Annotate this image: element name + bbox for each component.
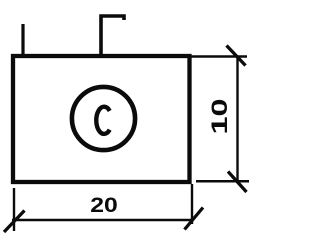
extension line below right corner [191, 184, 193, 224]
tick top of vertical dimension [227, 46, 246, 66]
extension line bottom right [196, 180, 249, 183]
bent terminal lead [101, 16, 124, 56]
tick right of horizontal dimension [185, 208, 204, 230]
left terminal lead [21, 24, 24, 56]
vertical dimension line 10 [236, 57, 238, 183]
extension line below left corner [13, 188, 15, 231]
tick left of horizontal dimension [4, 211, 25, 233]
horizontal dimension line 20 [12, 219, 194, 221]
tick bottom of vertical dimension [228, 172, 247, 193]
svg-text:20: 20 [90, 193, 118, 217]
extension line top right [191, 55, 247, 58]
letter C [96, 107, 109, 134]
svg-text:10: 10 [207, 99, 232, 135]
capacitor symbol circle [72, 87, 135, 150]
component body rectangle [13, 56, 190, 182]
